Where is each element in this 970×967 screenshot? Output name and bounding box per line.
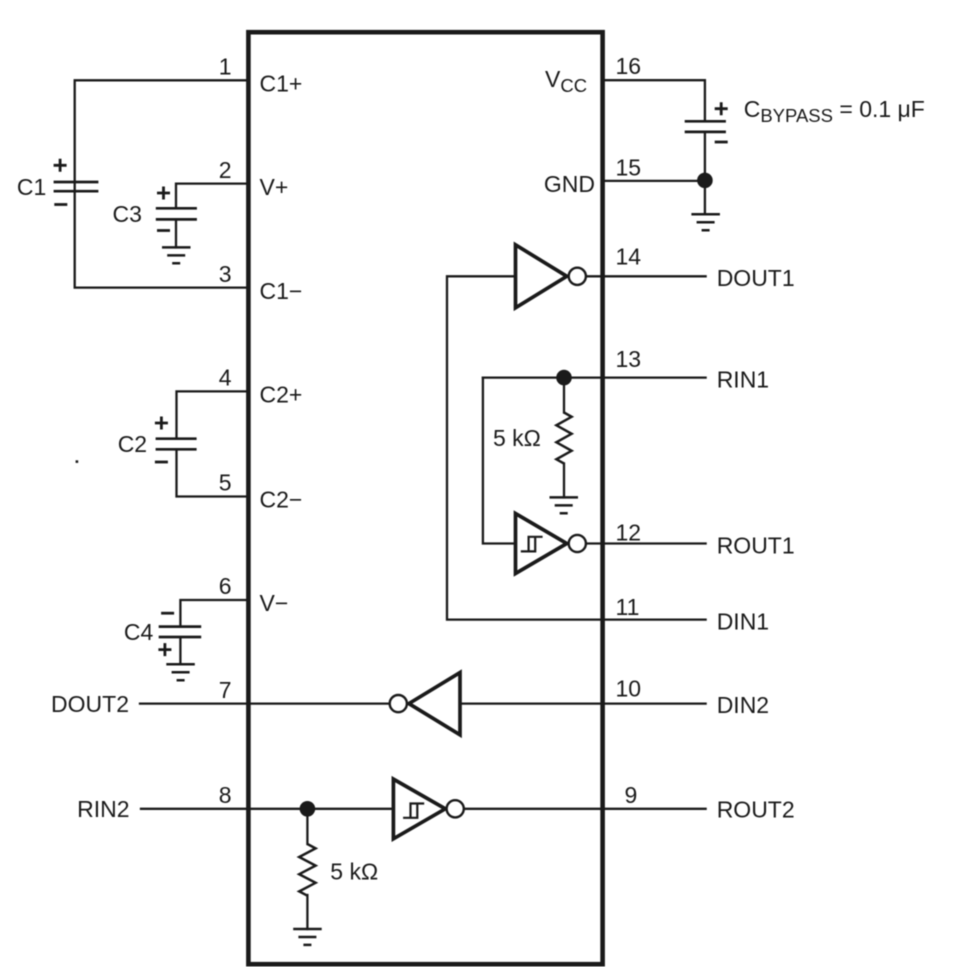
wire C4 bottom to ground (179, 638, 181, 664)
ground below C4 (166, 664, 195, 680)
schmitt U4 output bubble (447, 800, 464, 817)
wire DOUT2 to pin7 to inverter bubble (140, 702, 389, 704)
inverter U1 output bubble (569, 268, 586, 285)
svg-text:C4: C4 (124, 619, 154, 645)
wire resistor R2 bottom to ground (306, 895, 308, 929)
wire RIN2 to pin8 to schmitt U4 input (141, 808, 393, 810)
stray speck near C2 (76, 460, 79, 463)
C1 minus sign (54, 203, 67, 206)
svg-text:C2−: C2− (260, 487, 303, 513)
wire pin15 GND to junction (603, 180, 705, 182)
svg-text:V−: V− (260, 590, 289, 616)
wire RIN1 junction down to resistor R1 (563, 378, 565, 413)
wire pin1 C1+ to C1 top and down to pin3 C1- (75, 80, 249, 287)
wire RIN2 junction down to resistor R2 (306, 809, 308, 844)
schmitt U2 output bubble (569, 535, 586, 552)
svg-text:11: 11 (616, 594, 640, 620)
schmitt U4 hysteresis glyph (403, 804, 424, 818)
svg-text:2: 2 (219, 157, 232, 183)
C3 plus sign (157, 187, 170, 200)
wire pin2 V+ to C3 top (176, 184, 248, 208)
C4 plus sign (158, 643, 171, 656)
svg-text:RIN1: RIN1 (717, 366, 769, 392)
CBYPASS minus sign (715, 141, 728, 144)
wire bypass cap bottom to pin15 junction (704, 133, 706, 181)
svg-text:C2: C2 (118, 431, 147, 457)
wire schmitt U4 bubble to pin9 ROUT2 (464, 808, 706, 810)
svg-text:16: 16 (616, 53, 642, 79)
svg-text:7: 7 (219, 677, 232, 703)
inverter U1 triangle (DIN1 to DOUT1) (516, 245, 567, 308)
wire pin6 V- to C4 top (180, 600, 248, 625)
svg-text:3: 3 (219, 261, 232, 287)
svg-text:13: 13 (616, 346, 642, 372)
CBYPASS plus sign (715, 102, 728, 115)
wire pin13 RIN1 (483, 376, 706, 378)
IC U1 body outline (248, 32, 602, 964)
svg-text:C3: C3 (112, 201, 141, 227)
svg-text:10: 10 (616, 675, 642, 701)
svg-text:1: 1 (219, 54, 232, 80)
capacitor C4 plates (159, 627, 202, 637)
svg-text:9: 9 (625, 782, 638, 808)
wire C2 bottom to pin5 C2- (177, 450, 249, 496)
wire schmitt U2 bubble to pin12 ROUT1 (586, 542, 706, 544)
svg-text:C1+: C1+ (260, 71, 303, 97)
svg-text:ROUT2: ROUT2 (717, 796, 795, 822)
capacitor C2 plates (156, 439, 197, 450)
svg-text:5 kΩ: 5 kΩ (330, 859, 378, 885)
svg-text:DOUT1: DOUT1 (717, 265, 795, 291)
svg-text:6: 6 (219, 573, 232, 599)
inverter U3 triangle (DIN2 to DOUT2, points left) (409, 673, 460, 735)
svg-text:C1−: C1− (260, 278, 303, 304)
wire resistor R1 bottom to ground (563, 464, 565, 498)
svg-text:4: 4 (219, 365, 232, 391)
schmitt U2 hysteresis glyph (521, 537, 543, 552)
C2 plus sign (155, 417, 168, 430)
svg-text:DOUT2: DOUT2 (51, 691, 129, 717)
resistor R2 5k zigzag (299, 844, 315, 896)
wire C3 bottom to ground (175, 221, 177, 248)
svg-text:14: 14 (616, 244, 642, 270)
wire junction to ground (704, 181, 706, 214)
ground below resistor R2 (293, 929, 322, 945)
svg-text:8: 8 (219, 782, 232, 808)
svg-text:12: 12 (616, 520, 642, 546)
wire pin11 DIN1 up to inverter U1 input (447, 276, 706, 619)
svg-text:RIN2: RIN2 (77, 796, 129, 822)
inverter U3 output bubble (390, 695, 407, 712)
junction dot at pin15/bypass cap (697, 173, 713, 189)
wire pin4 C2+ to C2 top (177, 391, 249, 437)
svg-text:15: 15 (616, 154, 642, 180)
wire inverter U3 output to pin10 DIN2 (460, 702, 706, 704)
svg-text:ROUT1: ROUT1 (717, 532, 795, 558)
junction dot at pin8 RIN2 (300, 801, 316, 817)
wire inverter U1 bubble to pin14 DOUT1 (586, 275, 706, 277)
resistor R1 5k zigzag (556, 413, 571, 464)
C3 minus sign (157, 229, 170, 232)
capacitor C3 plates (156, 208, 197, 219)
svg-text:V+: V+ (260, 174, 289, 200)
ground below C3 (162, 247, 191, 263)
junction dot at pin13 RIN1 (556, 370, 572, 386)
C4 minus sign (161, 612, 174, 615)
C2 minus sign (155, 461, 168, 464)
wire RIN1 branch down to schmitt U2 input (483, 378, 514, 544)
svg-text:5: 5 (219, 470, 232, 496)
wire pin16 VCC to bypass cap (603, 80, 705, 120)
schmitt inverter U2 triangle (RIN1 to ROUT1) (516, 514, 567, 574)
svg-text:5 kΩ: 5 kΩ (493, 425, 541, 451)
svg-text:DIN2: DIN2 (717, 692, 769, 718)
capacitor C1 plates (54, 182, 99, 191)
ground below CBYPASS (691, 214, 720, 230)
svg-text:C1: C1 (17, 174, 46, 200)
schmitt inverter U4 triangle (RIN2 to ROUT2) (393, 779, 445, 839)
svg-text:DIN1: DIN1 (717, 608, 769, 634)
svg-text:C2+: C2+ (260, 382, 303, 408)
ground below resistor R1 (550, 497, 579, 513)
svg-text:GND: GND (544, 171, 595, 197)
capacitor CBYPASS plates (685, 121, 726, 132)
C1 plus sign (54, 159, 67, 172)
